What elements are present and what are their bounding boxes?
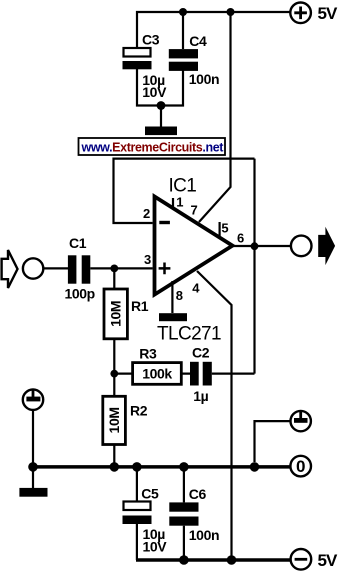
svg-text:5V: 5V	[318, 551, 338, 570]
svg-text:1µ: 1µ	[193, 388, 208, 404]
svg-text:10V: 10V	[143, 539, 168, 555]
svg-text:5: 5	[221, 220, 228, 235]
svg-text:R3: R3	[139, 346, 157, 362]
svg-text:4: 4	[192, 281, 200, 296]
svg-text:C4: C4	[189, 33, 207, 49]
svg-text:C3: C3	[142, 32, 160, 48]
svg-text:C2: C2	[192, 344, 210, 360]
svg-text:C5: C5	[141, 486, 159, 502]
svg-text:3: 3	[144, 252, 151, 267]
svg-text:C1: C1	[69, 235, 87, 251]
svg-text:0: 0	[296, 457, 305, 476]
svg-text:C6: C6	[189, 486, 207, 502]
svg-text:TLC271: TLC271	[157, 323, 221, 344]
svg-text:www.ExtremeCircuits.net: www.ExtremeCircuits.net	[81, 140, 225, 154]
svg-text:IC1: IC1	[169, 175, 197, 196]
svg-text:10V: 10V	[142, 84, 167, 100]
svg-text:10M: 10M	[108, 301, 124, 327]
svg-text:6: 6	[237, 230, 244, 245]
svg-text:7: 7	[191, 202, 198, 217]
svg-text:100p: 100p	[65, 285, 95, 301]
svg-text:100n: 100n	[189, 527, 219, 543]
svg-text:R2: R2	[130, 403, 148, 419]
svg-text:8: 8	[176, 288, 183, 303]
svg-text:2: 2	[143, 206, 150, 221]
svg-text:10M: 10M	[106, 407, 122, 433]
svg-text:100n: 100n	[189, 71, 219, 87]
svg-text:100k: 100k	[142, 366, 172, 382]
svg-text:1: 1	[176, 194, 183, 209]
svg-text:R1: R1	[131, 298, 149, 314]
svg-text:5V: 5V	[318, 4, 338, 23]
